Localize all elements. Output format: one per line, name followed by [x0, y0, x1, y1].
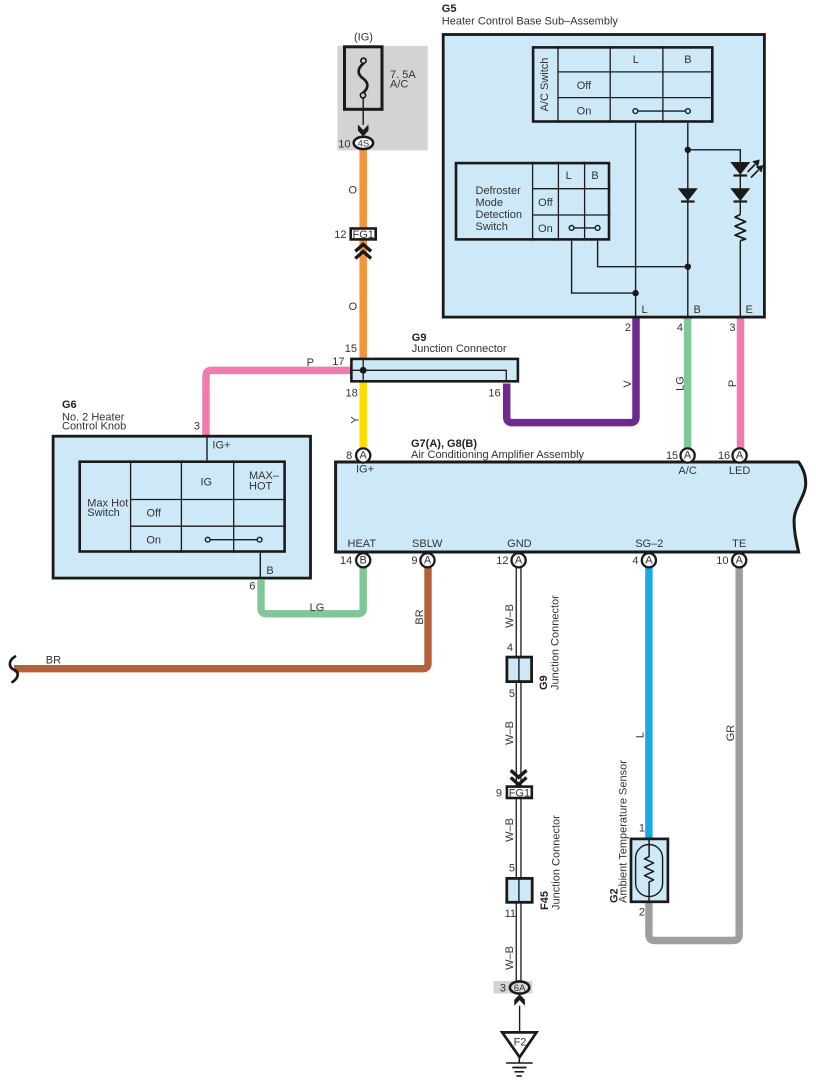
pin 16 (A) circle [733, 448, 747, 462]
svg-text:9: 9 [496, 788, 502, 800]
wire from defroster B column [598, 241, 688, 267]
svg-text:A: A [424, 554, 432, 566]
internal wire from pin3 to table [206, 436, 208, 460]
svg-text:3: 3 [194, 421, 200, 433]
svg-text:16: 16 [488, 388, 500, 400]
svg-text:Detection: Detection [476, 209, 522, 221]
resistor on E line [735, 215, 746, 241]
svg-text:Off: Off [538, 197, 553, 209]
svg-text:GR: GR [725, 725, 737, 742]
ground bars [506, 1062, 533, 1064]
svg-text:12: 12 [496, 555, 508, 567]
Defroster mode detection switch table [456, 162, 610, 241]
svg-text:1: 1 [639, 823, 645, 835]
svg-text:A: A [645, 554, 653, 566]
svg-text:G6: G6 [62, 399, 77, 411]
svg-text:F45: F45 [539, 891, 551, 910]
svg-text:6: 6 [249, 581, 255, 593]
junction connector F45 box [507, 878, 532, 902]
internal wire MAX-HOT column to pin 6 [259, 553, 261, 579]
svg-text:6A: 6A [514, 983, 526, 994]
svg-text:BR: BR [46, 655, 61, 667]
svg-text:L: L [635, 732, 647, 738]
G6 box [53, 436, 310, 578]
svg-text:16: 16 [718, 450, 730, 462]
svg-text:15: 15 [345, 343, 357, 355]
svg-text:V: V [622, 380, 634, 388]
wire LG green (G5 pin4 to amplifier pin15) [684, 319, 692, 449]
svg-text:A: A [360, 450, 368, 462]
svg-text:FG1: FG1 [509, 788, 530, 800]
wire P pink (G5 pin3 to amplifier pin16) [737, 319, 745, 449]
svg-text:IG: IG [200, 477, 212, 489]
svg-text:Junction Connector: Junction Connector [550, 595, 562, 690]
svg-text:Heater Control Base Sub–Assemb: Heater Control Base Sub–Assembly [442, 16, 619, 28]
junction dot on L [632, 290, 638, 296]
svg-text:FG1: FG1 [352, 229, 373, 241]
wire W-B white-black (amplifier pin12 to ground 6A) [516, 568, 522, 988]
svg-text:P: P [727, 380, 739, 387]
svg-text:L: L [566, 170, 572, 182]
svg-text:(IG): (IG) [354, 32, 373, 44]
wire P pink (G9 pin17 to G6 pin3) [206, 370, 351, 435]
svg-text:Switch: Switch [476, 221, 508, 233]
svg-text:12: 12 [334, 229, 346, 241]
svg-text:3: 3 [729, 322, 735, 334]
svg-text:IG+: IG+ [356, 463, 374, 475]
pin 15 (A) circle [681, 448, 695, 462]
svg-text:W–B: W–B [504, 604, 516, 628]
svg-text:4: 4 [677, 322, 683, 334]
svg-text:E: E [746, 304, 753, 316]
svg-text:HOT: HOT [249, 480, 273, 492]
svg-text:O: O [348, 185, 357, 197]
wire O orange (fuse 4S to FG1) [359, 150, 367, 228]
svg-text:IG+: IG+ [212, 440, 230, 452]
thermistor internal wire + resistor [645, 839, 654, 903]
pin 14 (B) circle [356, 553, 370, 567]
svg-text:LG: LG [675, 376, 687, 391]
gray band at ground connector [494, 981, 533, 994]
diode D3 on E line [731, 189, 749, 202]
G9 internal wire vertical [362, 359, 364, 382]
G2 sensor box [631, 839, 668, 902]
A/C switch ON contact [633, 109, 690, 114]
svg-text:10: 10 [716, 555, 728, 567]
svg-text:18: 18 [346, 388, 358, 400]
svg-text:On: On [146, 534, 161, 546]
svg-text:Switch: Switch [87, 507, 119, 519]
svg-text:Ambient Temperature Sensor: Ambient Temperature Sensor [618, 760, 630, 903]
break squiggle at left end of BR wire [10, 657, 18, 683]
svg-text:A: A [736, 554, 744, 566]
diode D1 on B line [679, 189, 697, 202]
fuse block gray background [337, 46, 427, 150]
svg-text:On: On [538, 223, 553, 235]
wire GR gray (amplifier pin10 to G2 pin2) [649, 568, 739, 941]
svg-text:3: 3 [500, 983, 506, 995]
svg-text:TE: TE [732, 538, 746, 550]
connector oval 4S [354, 137, 373, 149]
pin 12 (A) circle [511, 553, 525, 567]
ground point triangle F2 [502, 1032, 536, 1057]
svg-text:10: 10 [338, 139, 350, 151]
svg-text:B: B [684, 54, 691, 66]
svg-text:5: 5 [509, 863, 515, 875]
internal wire B vertical [687, 123, 689, 318]
svg-text:B: B [360, 554, 367, 566]
pin 8 (A) circle [356, 448, 370, 462]
wire from fuse to connector 4S [362, 98, 364, 125]
svg-text:17: 17 [332, 356, 344, 368]
svg-text:F2: F2 [514, 1037, 527, 1049]
svg-text:Junction Connector: Junction Connector [412, 343, 507, 355]
svg-text:8: 8 [346, 450, 352, 462]
junction dot on B [685, 264, 691, 270]
pin 10 (A) circle [732, 553, 746, 567]
Defroster ON contact [569, 226, 600, 231]
chevron arrows pointing down at FG1 [511, 770, 527, 784]
wire L blue (amplifier pin4 to G2 pin1) [645, 568, 652, 839]
svg-text:B: B [591, 170, 598, 182]
F45 box divider / wire [518, 878, 520, 903]
svg-text:11: 11 [505, 908, 516, 920]
connector oval 6A [510, 981, 529, 993]
svg-text:L: L [642, 304, 648, 316]
arrow out of 6A (solid up arrow) [514, 994, 525, 1006]
junction dot B branch [685, 147, 691, 153]
wire O orange (FG1 to junction connector G9) [359, 241, 367, 359]
svg-text:W–B: W–B [504, 721, 516, 745]
Max Hot ON contact [205, 537, 262, 542]
thermistor stadium outline [636, 845, 663, 897]
G9 connector box [351, 359, 518, 381]
wire LG green (G6 pin6 to amplifier pin14) [261, 568, 363, 614]
svg-text:A/C: A/C [678, 465, 696, 477]
svg-text:Y: Y [350, 416, 362, 424]
connector FG1 (lower) [507, 787, 532, 798]
svg-text:P: P [307, 357, 314, 369]
svg-text:A/C: A/C [390, 79, 408, 91]
ground stem [518, 1056, 520, 1063]
A/C switch table [533, 46, 714, 123]
pin 9 (A) circle [420, 553, 434, 567]
svg-text:4S: 4S [358, 138, 370, 149]
svg-text:2: 2 [625, 322, 631, 334]
svg-text:W–B: W–B [504, 946, 516, 970]
Max Hot switch table [80, 460, 286, 552]
svg-text:G5: G5 [442, 3, 457, 15]
svg-text:4: 4 [507, 642, 513, 654]
chevron arrows pointing up at FG1 [355, 244, 371, 258]
svg-text:Off: Off [146, 508, 161, 520]
fuse 7.5A A/C box [345, 47, 383, 110]
svg-text:SBLW: SBLW [412, 538, 443, 550]
wire from defroster L column [572, 241, 636, 293]
wire V violet (G5 pin2 to G9 pin16) [507, 319, 636, 423]
svg-text:HEAT: HEAT [348, 538, 377, 550]
svg-text:9: 9 [411, 555, 417, 567]
junction dot in G9 [360, 367, 367, 374]
arrow into 4S (solid down arrow) [358, 125, 369, 137]
svg-text:A: A [684, 450, 692, 462]
svg-text:A/C Switch: A/C Switch [539, 58, 551, 112]
svg-text:A: A [736, 450, 744, 462]
svg-text:Control Knob: Control Knob [62, 421, 126, 433]
wire BR brown (amplifier pin9 to left break) [14, 568, 428, 669]
svg-text:A: A [515, 554, 523, 566]
svg-text:O: O [349, 301, 358, 313]
fuse element squiggle [359, 63, 368, 92]
svg-text:Off: Off [577, 80, 592, 92]
G9 small box divider / wire [518, 657, 520, 682]
svg-text:B: B [266, 565, 273, 577]
svg-text:LED: LED [729, 465, 750, 477]
svg-text:SG–2: SG–2 [635, 538, 663, 550]
svg-text:Air Conditioning Amplifier Ass: Air Conditioning Amplifier Assembly [411, 449, 585, 461]
svg-text:14: 14 [340, 555, 352, 567]
fuse terminal top circle [361, 58, 366, 63]
svg-text:G9: G9 [538, 675, 550, 690]
LED D2 on E line [731, 160, 763, 178]
wire from arrow to ground point F2 [519, 1006, 521, 1032]
svg-text:LG: LG [310, 602, 325, 614]
svg-text:BR: BR [414, 609, 426, 624]
svg-text:2: 2 [639, 907, 645, 919]
svg-text:Mode: Mode [476, 197, 504, 209]
internal wire L vertical [635, 123, 637, 318]
svg-text:L: L [633, 54, 639, 66]
svg-text:15: 15 [666, 450, 678, 462]
svg-text:GND: GND [507, 538, 532, 550]
internal branch to E column [688, 150, 741, 318]
svg-text:W–B: W–B [504, 818, 516, 842]
pin 4 (A) circle [642, 553, 656, 567]
fuse terminal bottom circle [360, 93, 365, 98]
junction connector G9 (small box) [507, 657, 532, 682]
amplifier box with torn right edge [336, 462, 806, 552]
wire Y yellow (G9 pin18 to amplifier pin8) [359, 383, 367, 449]
svg-text:Defroster: Defroster [476, 185, 522, 197]
G5 box [443, 35, 764, 318]
svg-text:On: On [577, 106, 592, 118]
svg-text:B: B [694, 304, 701, 316]
connector FG1 (upper) [351, 229, 376, 240]
svg-text:4: 4 [632, 555, 638, 567]
svg-text:Junction Connector: Junction Connector [551, 815, 563, 910]
svg-text:5: 5 [509, 688, 515, 700]
G9 internal bus line [351, 370, 506, 381]
